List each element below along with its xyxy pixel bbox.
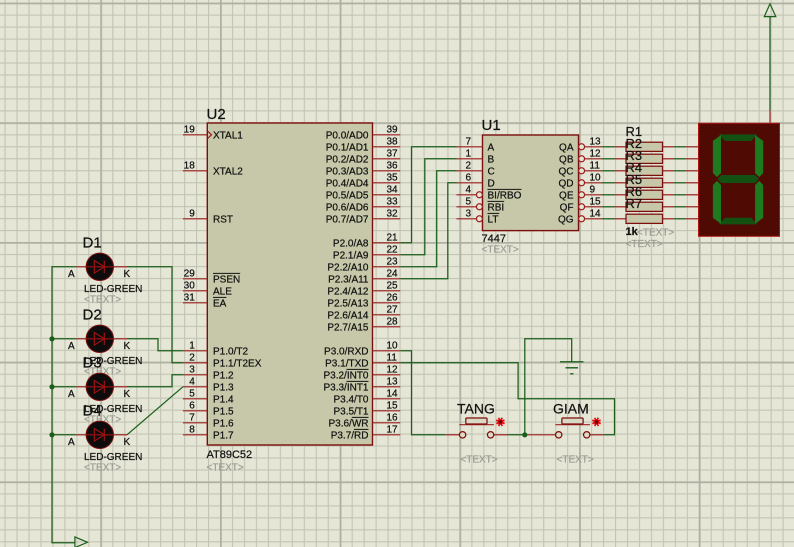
svg-text:<TEXT>: <TEXT> xyxy=(84,295,121,306)
svg-text:6: 6 xyxy=(189,401,195,412)
svg-text:P3.5/T1: P3.5/T1 xyxy=(333,406,368,417)
svg-text:P2.3/A11: P2.3/A11 xyxy=(328,274,369,285)
svg-text:P1.1/T2EX: P1.1/T2EX xyxy=(213,358,262,369)
wire D2 cathode to U2 P1.0 xyxy=(127,339,183,351)
svg-text:D4: D4 xyxy=(83,402,102,419)
display pin stubs left xyxy=(686,147,699,219)
wire junction to ground xyxy=(525,339,572,435)
transistor TANG push-button xyxy=(446,400,508,465)
ground symbol xyxy=(560,362,583,374)
svg-text:B: B xyxy=(488,154,495,165)
svg-text:25: 25 xyxy=(387,281,399,292)
svg-text:A: A xyxy=(68,341,75,352)
svg-text:P2.0/A8: P2.0/A8 xyxy=(333,238,369,249)
svg-text:D1: D1 xyxy=(83,234,102,251)
svg-text:P3.3/INT1: P3.3/INT1 xyxy=(323,382,368,393)
svg-text:P3.2/INT0: P3.2/INT0 xyxy=(323,370,368,381)
svg-text:5: 5 xyxy=(189,389,195,400)
svg-text:<TEXT>: <TEXT> xyxy=(637,228,674,239)
svg-text:QF: QF xyxy=(560,202,574,213)
svg-text:K: K xyxy=(124,269,131,280)
LED D4 (LED-GREEN) xyxy=(68,402,142,473)
resistor R6 xyxy=(615,184,675,211)
U1 RBI overline xyxy=(488,200,505,202)
display segment B top-right xyxy=(755,135,763,177)
node junction D2 anode xyxy=(49,336,54,341)
svg-text:7447: 7447 xyxy=(482,233,506,245)
U2 WR overline xyxy=(352,416,369,418)
svg-text:<TEXT>: <TEXT> xyxy=(460,454,497,465)
svg-text:3: 3 xyxy=(189,365,195,376)
svg-text:R7: R7 xyxy=(626,196,643,211)
U1 right pin stubs xyxy=(585,147,602,219)
svg-text:32: 32 xyxy=(387,209,399,220)
op-amp U1 decoder 7447 body xyxy=(483,135,579,231)
display segment C bottom-right xyxy=(755,181,763,224)
wire D4 cathode to U2 P1.3 (diagonal) xyxy=(127,387,183,435)
wire R7 to display pin xyxy=(674,218,686,220)
svg-text:38: 38 xyxy=(387,137,399,148)
svg-text:GIAM: GIAM xyxy=(553,400,589,416)
svg-text:12: 12 xyxy=(590,149,602,160)
wire R5 to display pin xyxy=(674,194,686,196)
svg-text:P0.2/AD2: P0.2/AD2 xyxy=(326,154,369,165)
svg-text:<TEXT>: <TEXT> xyxy=(207,463,244,474)
svg-text:27: 27 xyxy=(387,305,399,316)
svg-text:35: 35 xyxy=(387,173,399,184)
svg-text:11: 11 xyxy=(387,353,398,364)
resistor R2 xyxy=(615,136,675,163)
power arrow bottom-left xyxy=(75,537,88,547)
svg-text:P3.1/TXD: P3.1/TXD xyxy=(325,358,368,369)
svg-text:K: K xyxy=(124,341,131,352)
svg-text:12: 12 xyxy=(387,365,399,376)
svg-text:P3.0/RXD: P3.0/RXD xyxy=(324,346,368,357)
svg-text:P2.7/A15: P2.7/A15 xyxy=(327,322,369,333)
svg-text:16: 16 xyxy=(387,413,399,424)
svg-text:9: 9 xyxy=(189,209,195,220)
svg-text:P0.6/AD6: P0.6/AD6 xyxy=(326,202,369,213)
resistor R7 xyxy=(615,196,675,223)
svg-text:QD: QD xyxy=(559,178,574,189)
7-segment display body xyxy=(699,123,780,236)
svg-text:K: K xyxy=(124,437,131,448)
wire U1 QA to R1 xyxy=(602,146,615,148)
svg-text:EA: EA xyxy=(213,298,227,309)
svg-text:2: 2 xyxy=(465,161,471,172)
svg-text:13: 13 xyxy=(387,377,399,388)
svg-text:D3: D3 xyxy=(83,354,102,371)
svg-text:P0.0/AD0: P0.0/AD0 xyxy=(326,130,369,141)
U2 XTAL1 clock mark xyxy=(208,131,212,138)
wire U1 QF to R6 xyxy=(602,206,615,208)
svg-text:ALE: ALE xyxy=(213,286,232,297)
wire U1 QG to R7 xyxy=(602,218,615,220)
svg-text:22: 22 xyxy=(387,245,399,256)
op-amp U2 microcontroller AT89C52 body xyxy=(207,123,372,445)
svg-text:QC: QC xyxy=(559,166,574,177)
svg-text:P0.1/AD1: P0.1/AD1 xyxy=(326,142,369,153)
svg-text:9: 9 xyxy=(590,185,596,196)
U1 right inversion circles xyxy=(579,144,585,222)
svg-text:10: 10 xyxy=(590,173,602,184)
svg-text:AT89C52: AT89C52 xyxy=(207,449,253,461)
wire R3 to display pin xyxy=(674,170,686,172)
wire R1 to display pin xyxy=(674,146,686,148)
LED D3 (LED-GREEN) xyxy=(68,354,142,425)
svg-text:QB: QB xyxy=(559,154,574,165)
power arrow top-right xyxy=(764,4,776,17)
display segment G middle xyxy=(717,175,759,183)
resistor R3 xyxy=(615,148,675,175)
U2 left pin numbers xyxy=(184,125,196,436)
wire U2 P2.1 to U1 B xyxy=(400,159,456,255)
svg-text:P2.4/A12: P2.4/A12 xyxy=(327,286,369,297)
svg-text:7: 7 xyxy=(189,413,195,424)
wire LED anode bus to bottom-left arrow xyxy=(52,267,76,543)
svg-text:P3.4/T0: P3.4/T0 xyxy=(333,394,368,405)
U2 right pin names xyxy=(323,130,368,441)
svg-text:LT: LT xyxy=(488,214,499,225)
U2 right pin numbers xyxy=(387,125,399,436)
LED D2 (LED-GREEN) xyxy=(68,306,142,377)
wire U2 P2.2 to U1 C xyxy=(400,171,456,267)
U1 right pin names xyxy=(558,142,574,225)
svg-text:31: 31 xyxy=(184,293,196,304)
svg-text:P0.4/AD4: P0.4/AD4 xyxy=(326,178,369,189)
svg-text:P0.3/AD3: P0.3/AD3 xyxy=(326,166,369,177)
svg-text:34: 34 xyxy=(387,185,399,196)
svg-text:30: 30 xyxy=(184,281,196,292)
svg-text:C: C xyxy=(488,166,495,177)
U1 BI/RBO overline xyxy=(488,188,522,190)
U2 INT0 overline xyxy=(347,368,369,370)
LED D1 (LED-GREEN) xyxy=(68,234,142,305)
wire U2 P2.0 to U1 A xyxy=(400,147,456,243)
resistor R1 xyxy=(615,124,675,151)
svg-text:4: 4 xyxy=(189,377,195,388)
svg-text:P1.3: P1.3 xyxy=(213,382,234,393)
svg-text:10: 10 xyxy=(387,341,399,352)
display segment F top-left xyxy=(713,135,721,177)
U1 left inversion circles xyxy=(476,192,482,222)
svg-text:A: A xyxy=(488,142,495,153)
svg-text:36: 36 xyxy=(387,161,399,172)
svg-text:P1.7: P1.7 xyxy=(213,430,234,441)
svg-text:P2.2/A10: P2.2/A10 xyxy=(327,262,369,273)
svg-text:15: 15 xyxy=(387,401,399,412)
wire U2 P3.1 to button GIAM xyxy=(400,363,614,435)
svg-text:LED-GREEN: LED-GREEN xyxy=(84,284,142,295)
resistor R5 xyxy=(615,172,675,199)
U1 left pin stubs xyxy=(457,147,483,219)
svg-text:17: 17 xyxy=(387,425,399,436)
svg-text:P1.4: P1.4 xyxy=(213,394,234,405)
svg-text:P1.2: P1.2 xyxy=(213,370,234,381)
svg-text:U2: U2 xyxy=(207,106,226,123)
svg-text:P0.7/AD7: P0.7/AD7 xyxy=(326,214,369,225)
wire D3 cathode to U2 P1.2 xyxy=(127,375,183,387)
wire TANG to GIAM (bottom net) xyxy=(508,434,528,436)
wire U1 QD to R4 xyxy=(602,182,615,184)
svg-text:26: 26 xyxy=(387,293,399,304)
svg-text:18: 18 xyxy=(184,161,196,172)
svg-text:XTAL2: XTAL2 xyxy=(213,166,243,177)
svg-text:7: 7 xyxy=(465,137,471,148)
svg-text:13: 13 xyxy=(590,137,602,148)
svg-text:<TEXT>: <TEXT> xyxy=(557,454,594,465)
svg-text:37: 37 xyxy=(387,149,399,160)
svg-text:15: 15 xyxy=(590,197,602,208)
transistor GIAM push-button xyxy=(527,400,603,465)
svg-text:BI/RBO: BI/RBO xyxy=(488,190,522,201)
display segment E bottom-left xyxy=(713,181,721,224)
svg-text:U1: U1 xyxy=(482,117,501,134)
svg-text:19: 19 xyxy=(184,125,196,136)
wire R6 to display pin xyxy=(674,206,686,208)
svg-text:29: 29 xyxy=(184,269,196,280)
wire D1 cathode to U2 P1.1 xyxy=(127,267,183,363)
svg-text:P1.6: P1.6 xyxy=(213,418,234,429)
display segment D bottom xyxy=(719,218,758,225)
wire U1 QC to R3 xyxy=(602,170,615,172)
svg-text:P1.5: P1.5 xyxy=(213,406,234,417)
U2 EA overline xyxy=(213,296,226,298)
svg-text:P3.7/RD: P3.7/RD xyxy=(331,430,369,441)
U2 right pin stubs xyxy=(373,135,401,435)
svg-text:P2.1/A9: P2.1/A9 xyxy=(333,250,369,261)
U2 left pin names xyxy=(213,130,262,441)
svg-text:P3.6/WR: P3.6/WR xyxy=(328,418,368,429)
svg-text:PSEN: PSEN xyxy=(213,274,240,285)
wire U2 P3.0 to button TANG xyxy=(400,351,446,435)
svg-text:A: A xyxy=(68,389,75,400)
svg-text:14: 14 xyxy=(387,389,399,400)
svg-text:QE: QE xyxy=(559,190,574,201)
svg-text:K: K xyxy=(124,389,131,400)
U2 left pin stubs xyxy=(183,135,207,435)
svg-text:<TEXT>: <TEXT> xyxy=(626,239,663,250)
svg-text:P2.5/A13: P2.5/A13 xyxy=(327,298,369,309)
svg-text:A: A xyxy=(68,437,75,448)
svg-text:RST: RST xyxy=(213,214,233,225)
svg-text:LED-GREEN: LED-GREEN xyxy=(84,452,142,463)
svg-text:4: 4 xyxy=(465,185,471,196)
wire R4 to display pin xyxy=(674,182,686,184)
U2 PSEN overline xyxy=(213,272,240,274)
svg-text:39: 39 xyxy=(387,125,399,136)
svg-text:24: 24 xyxy=(387,269,399,280)
U1 left pin names xyxy=(488,142,522,225)
U1 left pin numbers xyxy=(465,137,471,220)
display segment A top xyxy=(719,134,758,141)
svg-text:QA: QA xyxy=(559,142,574,153)
svg-text:5: 5 xyxy=(465,197,471,208)
svg-text:A: A xyxy=(68,269,75,280)
svg-text:1: 1 xyxy=(465,149,471,160)
svg-text:QG: QG xyxy=(558,214,574,225)
svg-text:P2.6/A14: P2.6/A14 xyxy=(327,310,369,321)
svg-text:P1.0/T2: P1.0/T2 xyxy=(213,346,248,357)
svg-text:8: 8 xyxy=(189,425,195,436)
node junction D4 anode xyxy=(49,432,54,437)
display common anode pin stub top xyxy=(769,111,771,123)
wire power arrow to display common anode xyxy=(769,17,771,111)
wire U1 QB to R2 xyxy=(602,158,615,160)
svg-text:<TEXT>: <TEXT> xyxy=(482,245,519,256)
svg-text:1: 1 xyxy=(189,341,195,352)
svg-text:RBI: RBI xyxy=(488,202,505,213)
svg-text:P0.5/AD5: P0.5/AD5 xyxy=(326,190,369,201)
svg-text:D: D xyxy=(488,178,495,189)
U1 right pin numbers xyxy=(590,137,602,220)
wire U1 QE to R5 xyxy=(602,194,615,196)
svg-text:D2: D2 xyxy=(83,306,102,323)
svg-text:3: 3 xyxy=(465,209,471,220)
U2 INT1 overline xyxy=(347,380,369,382)
svg-text:6: 6 xyxy=(465,173,471,184)
svg-text:<TEXT>: <TEXT> xyxy=(84,463,121,474)
U2 RD overline xyxy=(354,428,369,430)
svg-text:28: 28 xyxy=(387,317,399,328)
svg-text:33: 33 xyxy=(387,197,399,208)
svg-text:2: 2 xyxy=(189,353,195,364)
node junction buttons-to-ground xyxy=(522,432,527,437)
wire U2 P2.3 to U1 D xyxy=(400,183,456,279)
resistor R4 xyxy=(615,160,675,187)
svg-text:23: 23 xyxy=(387,257,399,268)
U1 LT overline xyxy=(488,212,500,214)
svg-text:14: 14 xyxy=(590,209,602,220)
svg-text:TANG: TANG xyxy=(457,400,495,416)
svg-text:XTAL1: XTAL1 xyxy=(213,130,243,141)
svg-text:11: 11 xyxy=(590,161,601,172)
wire R2 to display pin xyxy=(674,158,686,160)
node junction D3 anode xyxy=(49,384,54,389)
svg-text:21: 21 xyxy=(387,233,399,244)
